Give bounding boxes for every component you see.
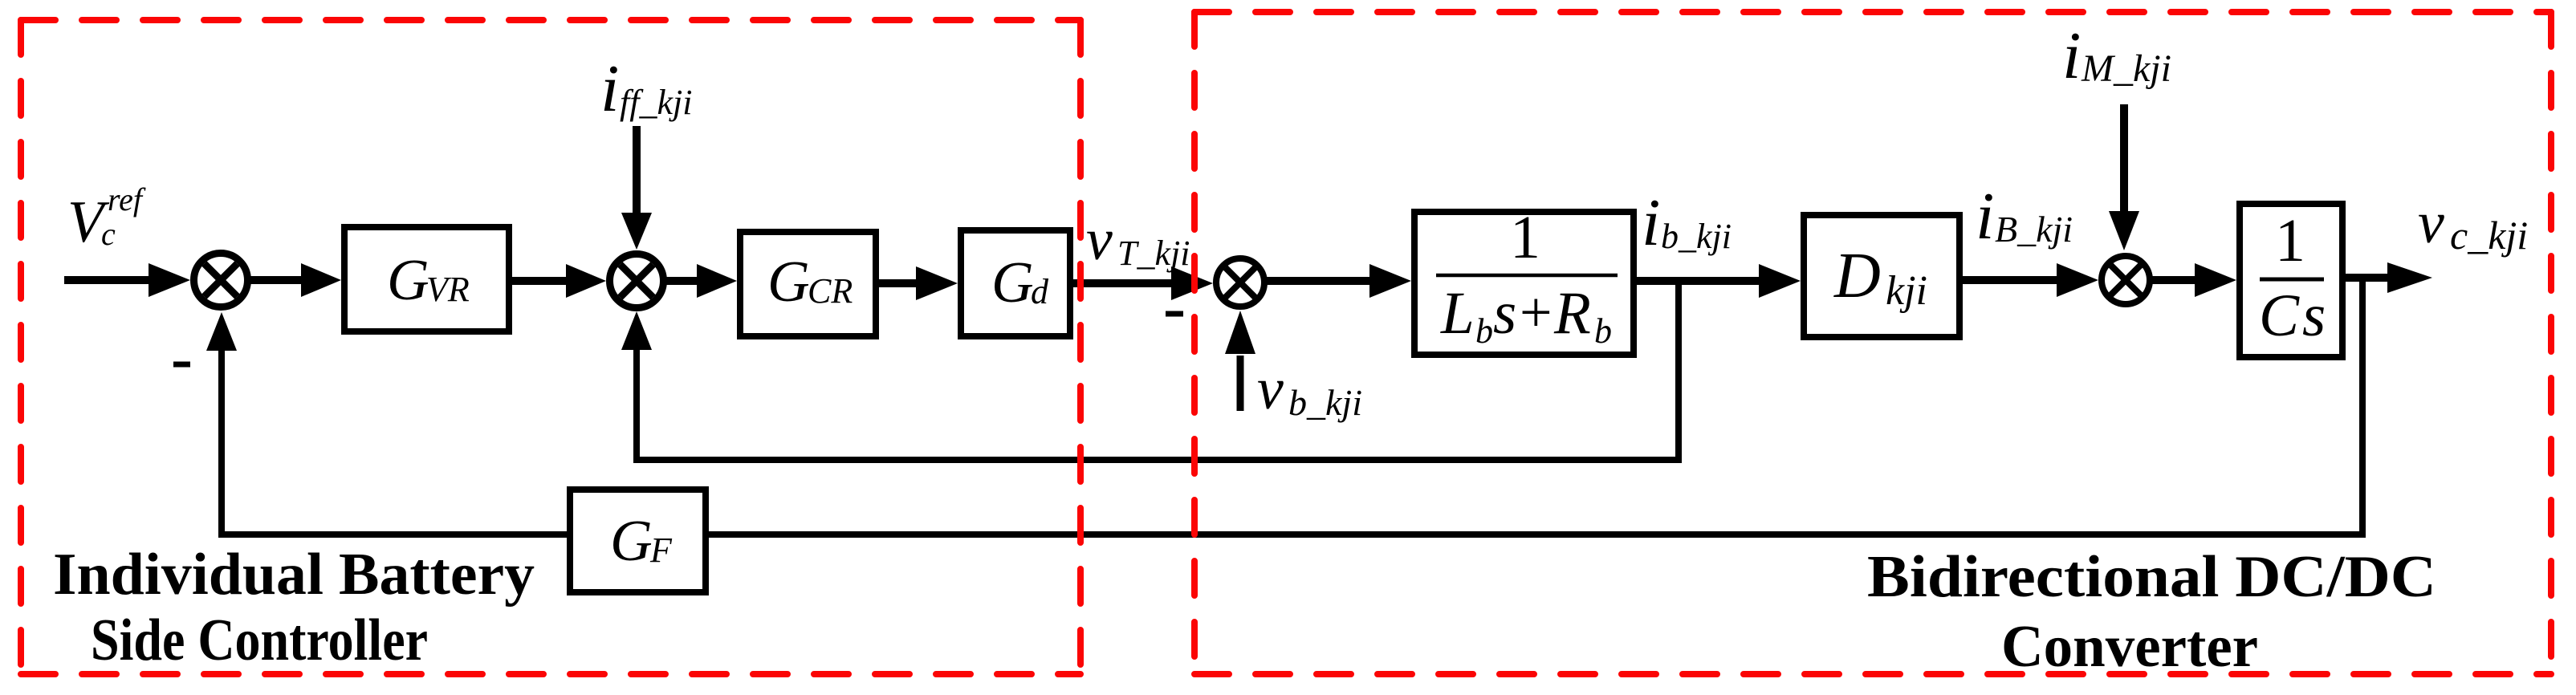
- block Dkji: [1804, 215, 1959, 337]
- arrowhead of iM_kji into S4: [2109, 211, 2139, 250]
- label 1/(Lbs+Rb): [1436, 204, 1618, 351]
- summing junction S2: [610, 254, 664, 308]
- minus sign at S3 lower input: [1166, 311, 1183, 317]
- wire: voltage feedback horizontal through GF: [218, 531, 2366, 538]
- wire: voltage feedback riser into S1: [218, 350, 225, 538]
- label GF: [610, 508, 673, 573]
- svg-text:c_kji: c_kji: [2450, 213, 2528, 258]
- block GCR: [740, 232, 876, 336]
- wire: iff_kji drop line: [633, 126, 641, 215]
- wire: vb_kji stem: [1237, 356, 1244, 411]
- dashed boundary: Bidirectional DC/DC Converter: [1194, 12, 2551, 674]
- wire: GVR to S2: [512, 277, 568, 285]
- arrowhead up into S2: [621, 311, 652, 350]
- label Gd: [991, 250, 1049, 315]
- arrowhead of iff_kji into S2: [621, 213, 652, 250]
- block 1/(Lbs+Rb): [1414, 212, 1634, 355]
- svg-text:b: b: [1594, 311, 1612, 351]
- svg-text:F: F: [649, 530, 673, 570]
- node iM_kji label: [2062, 18, 2171, 93]
- svg-text:G: G: [991, 250, 1034, 315]
- wire: plant to Dkji with ib branch: [1637, 277, 1760, 285]
- svg-text:Bidirectional DC/DC: Bidirectional DC/DC: [1867, 544, 2436, 610]
- wire: 1/Cs to output: [2346, 274, 2389, 282]
- minus sign at S1 lower input: [173, 362, 190, 368]
- wire: iM_kji drop line: [2120, 104, 2128, 213]
- svg-text:G: G: [387, 247, 429, 312]
- arrowhead of output vc_kji: [2387, 262, 2432, 293]
- wire: S2 to GCR: [664, 277, 698, 285]
- svg-text:Individual Battery: Individual Battery: [53, 542, 535, 608]
- svg-text:Side Controller: Side Controller: [91, 608, 428, 673]
- svg-text:1: 1: [2275, 207, 2305, 274]
- svg-text:kji: kji: [1886, 268, 1927, 314]
- svg-text:1: 1: [1510, 204, 1540, 271]
- label GVR: [387, 247, 470, 312]
- arrowhead into summing junction S2: [566, 264, 606, 298]
- label GCR: [767, 249, 853, 314]
- wire: ib_kji branch down: [1675, 281, 1682, 457]
- node vb_kji label: [1257, 356, 1362, 423]
- arrowhead into summing junction S3: [1171, 266, 1213, 300]
- wire: S4 to 1/Cs: [2150, 276, 2196, 284]
- wire: GCR to Gd: [879, 279, 918, 287]
- svg-text:T_kji: T_kji: [1117, 234, 1190, 273]
- label: Bidirectional DC/DC Converter: [1867, 544, 2436, 680]
- wire: Vc_ref input segment: [64, 276, 151, 284]
- svg-text:s: s: [2302, 282, 2326, 349]
- svg-text:VR: VR: [426, 270, 470, 309]
- node ib_kji label: [1642, 185, 1732, 260]
- block GVR: [344, 227, 509, 331]
- svg-text:ref: ref: [108, 181, 146, 217]
- wire: vc_kji branch down: [2359, 278, 2366, 531]
- wire: current feedback horizontal: [633, 457, 1682, 463]
- svg-text:D: D: [1833, 241, 1881, 311]
- svg-text:i: i: [600, 51, 619, 126]
- label 1/Cs: [2259, 207, 2326, 349]
- svg-text:d: d: [1031, 272, 1049, 311]
- svg-text:Converter: Converter: [2001, 614, 2258, 680]
- svg-text:v: v: [2418, 190, 2444, 256]
- svg-text:C: C: [2259, 282, 2300, 349]
- arrowhead into Gd: [916, 266, 958, 300]
- block Gd: [961, 230, 1070, 336]
- svg-text:G: G: [610, 508, 653, 573]
- svg-text:v: v: [1257, 356, 1284, 422]
- label Dkji: [1833, 241, 1927, 314]
- svg-text:M_kji: M_kji: [2081, 47, 2171, 90]
- wire: current feedback riser into S2: [633, 348, 640, 463]
- svg-text:i: i: [2062, 18, 2081, 93]
- svg-text:v: v: [1086, 207, 1113, 273]
- arrowhead into summing junction S4: [2057, 263, 2098, 297]
- node Vc_ref label: [67, 181, 146, 255]
- arrowhead into plant block: [1369, 264, 1411, 298]
- node iff_kji label: [600, 51, 692, 126]
- svg-text:c: c: [101, 216, 116, 252]
- svg-text:i: i: [1642, 185, 1660, 260]
- dashed boundary: Individual Battery Side Controller: [21, 20, 1080, 674]
- svg-text:s: s: [1493, 280, 1516, 347]
- svg-text:b: b: [1475, 311, 1493, 351]
- arrowhead up into S1: [206, 312, 237, 351]
- summing junction S1: [194, 254, 248, 307]
- svg-text:B_kji: B_kji: [1995, 209, 2073, 250]
- wire: S3 to plant block: [1264, 277, 1371, 285]
- summing junction S4: [2102, 256, 2150, 304]
- block GF: [570, 490, 706, 592]
- block 1/Cs: [2240, 204, 2342, 357]
- svg-text:ff_kji: ff_kji: [620, 83, 692, 122]
- wire: S1 to GVR: [248, 276, 303, 284]
- svg-text:L: L: [1440, 280, 1475, 347]
- node vT_kji label: [1086, 207, 1190, 273]
- node vc_kji label: [2418, 190, 2528, 258]
- node iB_kji label: [1976, 179, 2073, 254]
- svg-text:b_kji: b_kji: [1661, 217, 1732, 256]
- arrowhead of vb_kji into S3: [1225, 311, 1255, 354]
- wire: Gd to S3 (vT_kji): [1073, 279, 1174, 287]
- label: Individual Battery Side Controller: [53, 542, 535, 673]
- arrowhead into 1/Cs: [2195, 263, 2236, 297]
- arrowhead into Dkji: [1759, 264, 1801, 298]
- arrowhead into GVR: [301, 263, 341, 297]
- summing junction S3: [1216, 258, 1264, 307]
- svg-text:+: +: [1520, 280, 1553, 344]
- svg-text:G: G: [767, 249, 810, 314]
- arrowhead into summing junction S1: [149, 263, 190, 297]
- svg-text:R: R: [1553, 280, 1591, 347]
- arrowhead into GCR: [697, 264, 737, 298]
- wire: Dkji to S4: [1963, 276, 2058, 284]
- svg-text:CR: CR: [808, 271, 853, 311]
- svg-text:i: i: [1976, 179, 1994, 254]
- svg-text:b_kji: b_kji: [1288, 382, 1362, 423]
